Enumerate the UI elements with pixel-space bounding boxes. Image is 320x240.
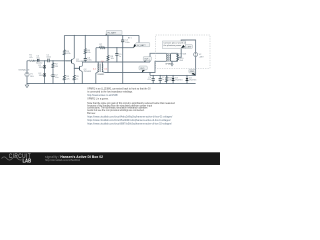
wire top rail +9V y=37 xyxy=(64,34,139,36)
capacitor C5 47u xyxy=(152,79,155,81)
resistor R9 6k8 xyxy=(177,54,179,57)
resistor R7 47k feedback xyxy=(99,47,105,49)
wire rail drop to battery flag xyxy=(138,35,140,42)
ground XFMR2 case xyxy=(171,64,174,66)
svg-text:47k: 47k xyxy=(29,57,33,59)
diode D2 1N4148 xyxy=(43,73,46,76)
junction node62/C4 xyxy=(122,61,123,62)
svg-text:47u: 47u xyxy=(147,79,151,81)
svg-text:1N4733: 1N4733 xyxy=(189,80,197,82)
svg-text:9V_BATT: 9V_BATT xyxy=(137,44,147,47)
svg-text:1N4148: 1N4148 xyxy=(39,67,47,69)
svg-text:47k: 47k xyxy=(66,78,70,80)
wire C4b branch x=115.3 xyxy=(116,48,118,62)
svg-text:1u: 1u xyxy=(162,79,165,81)
wire V1 top xyxy=(26,61,28,73)
svg-text:SIG: SIG xyxy=(30,76,34,78)
wire XFMR1 primary bottom to ground xyxy=(96,72,98,84)
capacitor C6 100n xyxy=(159,79,162,81)
junction Q1 emitter/Q2 base xyxy=(74,68,75,69)
svg-text:http://circuitlab.com/c/5e3644: http://circuitlab.com/c/5e3644 xyxy=(45,158,80,162)
resistor R5 1k emitter xyxy=(73,75,75,80)
diode D1 1N4148 xyxy=(43,65,46,68)
junction node75/R11 xyxy=(166,75,167,76)
transistor Q2 2N5088 xyxy=(74,62,82,72)
wire C5 branch xyxy=(152,75,154,83)
resistor R3 470k upper divider xyxy=(63,50,65,55)
wire R11 branch xyxy=(166,75,168,83)
capacitor C2 xyxy=(51,75,54,77)
zener D4 15V xyxy=(186,78,189,81)
svg-text:4.2: 4.2 xyxy=(93,69,97,71)
wire RC decouple branch x=85.3 xyxy=(84,35,86,62)
svg-text:http://www.sowter.co.uk/1538l: http://www.sowter.co.uk/1538l xyxy=(87,94,118,97)
wire divider branch x=64.4 xyxy=(63,35,65,83)
resistor R4 47k lower divider xyxy=(63,75,65,80)
net flag OUT- xyxy=(139,66,147,73)
svg-text:XFMR1 L is a guess.: XFMR1 L is a guess. xyxy=(87,99,109,101)
junction node62/x96 xyxy=(95,61,96,62)
junction node72/C4 xyxy=(122,72,123,73)
svg-text:10k: 10k xyxy=(111,58,115,60)
junction node75/D3 xyxy=(173,75,174,76)
wire feedback node y=47.7 xyxy=(96,47,133,49)
wire V2 bottom xyxy=(195,57,197,76)
junction ground/D4 xyxy=(186,83,187,84)
junction input/divider xyxy=(64,60,65,61)
svg-text:https://www.circuitlab.com/cir: https://www.circuitlab.com/circuit/4abc2… xyxy=(87,116,172,119)
wire diode branch x=44.5 xyxy=(44,61,46,84)
junction ground/C2 xyxy=(52,83,53,84)
resistor R11 220R xyxy=(166,76,168,81)
svg-text:+48V: +48V xyxy=(199,56,205,58)
junction ground/D2 xyxy=(44,83,45,84)
svg-text:2N5088: 2N5088 xyxy=(76,61,84,63)
wire Q2 collector node y=62 xyxy=(82,61,150,63)
wire Q1 emitter / R5 branch x=74.3 xyxy=(73,64,75,83)
junction ground/R5 xyxy=(74,83,75,84)
svg-text:But see:: But see: xyxy=(87,112,96,115)
net flag 9V battery (top) xyxy=(106,30,122,35)
junction node62/XFMR1 secondary xyxy=(102,61,103,62)
junction node75/C6 xyxy=(160,75,161,76)
transistor Q1 2N5088 xyxy=(66,58,74,64)
svg-text:100u: 100u xyxy=(125,42,130,44)
svg-text:LAB: LAB xyxy=(23,158,32,163)
wire R8 branch x=108 xyxy=(107,35,109,72)
wire Q2 base xyxy=(74,67,79,69)
junction input/R2 xyxy=(52,60,53,61)
wire secondary line y=72.5 xyxy=(105,61,167,72)
junction rail/C4 xyxy=(122,35,123,36)
junction node75/C5 xyxy=(153,75,154,76)
wire bias branch x=53 xyxy=(52,61,54,84)
wire x=96 drop xyxy=(95,48,97,62)
wire Q1 collector xyxy=(73,35,75,58)
annotation box: phantom power note xyxy=(163,41,186,49)
junction ground/V1 xyxy=(26,83,27,84)
junction ground/R4 xyxy=(64,83,65,84)
resistor R6 10k decouple xyxy=(84,48,86,53)
voltage source V2 +48V phantom xyxy=(194,53,198,57)
svg-text:100u: 100u xyxy=(87,60,92,62)
wire D3 branch xyxy=(172,75,174,83)
zener D3 15V xyxy=(172,78,175,81)
wire XFMR1 secondary top stub xyxy=(101,62,103,64)
junction node62/XFMR1 primary xyxy=(98,61,99,62)
junction ground/XFMR1 xyxy=(95,83,96,84)
resistor R1 47k input series xyxy=(28,60,34,62)
transformer XFMR2 mixer input xyxy=(167,53,171,62)
svg-text:is connected to the low impeda: is connected to the low impedance windin… xyxy=(87,91,133,94)
junction ground/D3 xyxy=(173,83,174,84)
svg-text:XFMR1: XFMR1 xyxy=(97,74,105,76)
svg-text:https://www.circuitlab.com/cir: https://www.circuitlab.com/circuit/88f7d… xyxy=(87,123,172,126)
junction ground/R11 xyxy=(166,83,167,84)
junction node72/R8 xyxy=(107,72,108,73)
dashed phantom-power box xyxy=(156,35,210,68)
junction node75/D4 xyxy=(186,75,187,76)
svg-text:BT1: BT1 xyxy=(128,37,133,39)
wire protection row top y=75.4 xyxy=(150,74,196,76)
net flag +48V xyxy=(181,45,192,49)
wire C6 branch xyxy=(159,75,161,83)
svg-text:1N4733: 1N4733 xyxy=(175,80,183,82)
junction input/D1 xyxy=(44,60,45,61)
wire ground stub XFMR2 xyxy=(171,61,172,64)
wire V1 bottom to ground rail xyxy=(26,77,28,84)
voltage source V1 SIGNAL_IN xyxy=(25,72,29,76)
junction rail/Q1 xyxy=(74,35,75,36)
wire out+ to XFMR2 xyxy=(150,53,167,62)
junction ground/C4 xyxy=(122,83,123,84)
junction phantom mid node xyxy=(177,57,178,58)
junction node47/C4 xyxy=(122,47,123,48)
wire phantom mid node xyxy=(178,48,182,57)
capacitor C0 polarized input xyxy=(38,59,39,62)
junction node47/R8 xyxy=(107,47,108,48)
svg-text:10k: 10k xyxy=(87,52,91,54)
capacitor C1 100n input series xyxy=(48,59,49,63)
junction node47/C4b xyxy=(116,47,117,48)
resistor R8 10k xyxy=(107,55,109,60)
junction node62/R6 xyxy=(85,61,86,62)
wire R9 R10 stack xyxy=(177,53,179,61)
svg-text:XFMR1 is an LL1538XL connected: XFMR1 is an LL1538XL connected back to f… xyxy=(87,87,150,90)
junction rail/R6 xyxy=(85,35,86,36)
svg-text:470k: 470k xyxy=(66,53,71,55)
svg-text:6k8: 6k8 xyxy=(183,54,187,56)
net flag V2 bottom xyxy=(189,69,196,75)
svg-text:4.2: 4.2 xyxy=(104,68,108,70)
resistor R10 6k8 xyxy=(177,58,179,61)
wire phantom top feed xyxy=(181,40,195,53)
junction node62/C4b xyxy=(116,61,117,62)
footer logo wave xyxy=(2,157,22,160)
svg-text:1N4148: 1N4148 xyxy=(39,75,47,77)
wire Q2 emitter xyxy=(81,72,83,84)
junction rail/R8 xyxy=(107,35,108,36)
wire ground rail y=83.5 xyxy=(27,83,196,85)
ground main xyxy=(25,84,29,88)
junction ground/Q2 xyxy=(82,83,83,84)
svg-text:+48V: +48V xyxy=(186,47,192,49)
svg-text:OUT-: OUT- xyxy=(140,68,145,70)
footer bar xyxy=(0,152,220,165)
wire input node y=60.8 xyxy=(27,60,72,62)
wire protection row stub x=150 xyxy=(149,73,151,76)
resistor R2 1M xyxy=(52,63,54,68)
svg-text:OUT+: OUT+ xyxy=(144,59,150,61)
note text block xyxy=(87,87,175,125)
svg-text:1M: 1M xyxy=(55,66,58,68)
wire XFMR2 secondary bottom xyxy=(171,60,178,62)
junction ground/C6 xyxy=(160,83,161,84)
transformer XFMR1 LL1538XL xyxy=(98,64,103,72)
svg-text:1u: 1u xyxy=(119,56,122,58)
svg-text:GND: GND xyxy=(190,71,195,73)
svg-text:6k8: 6k8 xyxy=(180,60,184,62)
capacitor C4 100u rail xyxy=(121,40,124,42)
svg-text:https://www.circuitlab.com/cir: https://www.circuitlab.com/circuit/5udb4… xyxy=(87,119,171,122)
net flag OUT+ xyxy=(143,57,151,63)
junction ground/C5 xyxy=(153,83,154,84)
svg-text:the phantom power: the phantom power xyxy=(164,44,182,47)
svg-text:bipolar: bipolar xyxy=(36,61,43,64)
net flag 9V battery (right) xyxy=(133,43,150,49)
wire XFMR1 primary top stub xyxy=(97,62,99,64)
svg-text:2N5088: 2N5088 xyxy=(84,71,92,73)
wire XFMR1 secondary bottom out xyxy=(102,71,104,74)
svg-text:100n: 100n xyxy=(46,57,51,59)
svg-text:10u: 10u xyxy=(36,58,40,60)
junction dots xyxy=(26,35,187,84)
svg-text:levels but see the non previou: levels but see the non previous windings… xyxy=(87,109,144,112)
svg-text:9V_BATT: 9V_BATT xyxy=(107,32,117,35)
svg-text:XFMR2: XFMR2 xyxy=(165,63,173,65)
svg-text:SIGNAL_IN: SIGNAL_IN xyxy=(18,69,29,72)
capacitor C4b xyxy=(115,54,118,56)
svg-text:10u: 10u xyxy=(55,77,59,79)
junction node72/protection xyxy=(149,72,150,73)
wire XFMR2 secondary top xyxy=(171,52,178,54)
wire D4 branch xyxy=(186,75,188,83)
svg-text:1k: 1k xyxy=(76,78,79,80)
wire C4 branch x=122.7 xyxy=(122,35,124,83)
capacitor C3 100u decouple xyxy=(84,59,87,61)
